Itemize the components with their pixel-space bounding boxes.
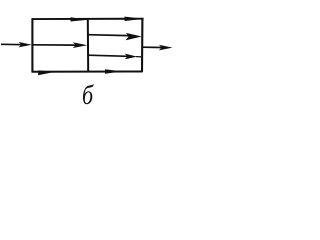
wire: left-half middle line [33,44,76,46]
wire: right-half lower branch line [88,55,128,56]
wire: input line [1,43,25,45]
arrowhead: bottom edge left segment arrow [38,70,56,75]
wire: outer box left edge [31,18,33,72]
arrowhead: upper branch arrow tip at right edge [126,33,142,40]
arrowhead: top edge right segment arrow [125,17,144,21]
arrowhead: lower branch arrow [125,54,137,60]
wire: outer box right edge [141,18,143,72]
arrowhead: top edge left segment arrow [71,17,88,21]
wire: outer box bottom edge [32,71,143,73]
wire: middle vertical divider [87,19,89,73]
wire: outer box top edge [32,18,144,20]
label: figure letter б [82,82,98,109]
arrowhead: input arrow tip at left box edge [19,42,32,48]
wire: output line [143,46,163,48]
wire: lower branch stub to right edge [136,56,142,58]
wire: right-half upper branch line [88,35,130,36]
arrowhead: output arrow tip [159,45,173,51]
arrowhead: middle line arrow tip at divider [73,42,88,48]
arrowhead: bottom edge right segment arrow [105,69,122,74]
